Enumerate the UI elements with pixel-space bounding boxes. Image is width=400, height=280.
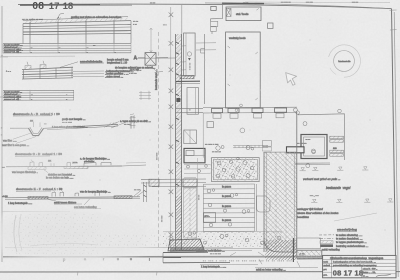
- road cross-hatched vertical band: [262, 112, 297, 262]
- site / garden: [96, 112, 377, 271]
- main hatched wall band: [176, 34, 182, 250]
- rounded island between rows and road: [257, 196, 270, 212]
- scattered small circles: [240, 128, 245, 133]
- survey dashed line: [158, 32, 160, 250]
- left margin ticks: [0, 56, 8, 58]
- legend + title block: [296, 228, 396, 278]
- small square S1: [268, 23, 273, 28]
- top border line: [18, 4, 391, 9]
- D1 top sloped chord: [23, 17, 128, 21]
- D4 bumps and flags: [30, 162, 34, 167]
- detail D1 purlin section: [3, 13, 138, 53]
- small ties around band: [182, 46, 186, 70]
- D5 flags: [52, 192, 64, 196]
- tall rect R_a: [184, 33, 196, 76]
- double line under SE building: [295, 162, 330, 164]
- mouse cursor: [286, 73, 297, 86]
- soft scan stains: [0, 202, 172, 268]
- floor slab line: [176, 80, 200, 82]
- rect R_c: [184, 130, 197, 144]
- D3 leaders to filter labels: [13, 133, 31, 139]
- section marker A with X-box: [129, 53, 168, 75]
- level marks (nabla): [300, 167, 394, 203]
- D5 dark bars: [28, 196, 48, 199]
- D1 table: [3, 42, 131, 44]
- scan specks: [30, 20, 386, 231]
- lower hatched road band (vertical): [184, 188, 197, 238]
- D2 hatch patches with arrows: [25, 66, 31, 70]
- leader through band at y58: [137, 57, 175, 59]
- junction with plan south wall: [176, 107, 203, 109]
- D4 labels below: [44, 170, 48, 173]
- faint driveway stipple lower-left: [12, 214, 98, 254]
- floor plan: [201, 3, 394, 203]
- title block table: [323, 255, 396, 277]
- silo circle: [334, 51, 355, 72]
- detail D2 eaves connection: [3, 59, 156, 101]
- D3 top-right diagonal leaders: [104, 122, 125, 128]
- D3 road surface double line rising right: [44, 124, 119, 128]
- left column details: [0, 13, 172, 268]
- column X-box in R1 corner: [226, 8, 231, 16]
- west wall zigzag: [205, 3, 223, 104]
- leader annotations below site: [196, 248, 318, 268]
- bottom sheet border: [0, 271, 400, 273]
- right border double line: [392, 9, 396, 277]
- room R2 werktuigloods: [226, 32, 261, 108]
- 08 17 18 top stamp: [32, 1, 74, 12]
- white bar doorway to the left: [287, 147, 305, 153]
- small SE building double-wall square: [301, 135, 327, 159]
- small court square left: [207, 122, 213, 128]
- central wall section strip: [137, 5, 230, 263]
- D2 table: [3, 89, 74, 91]
- D1 beam body: [30, 16, 117, 21]
- crossing band y178-188: [141, 178, 206, 180]
- D2 leader: [60, 62, 78, 68]
- road bottom corner + horizontal band: [264, 238, 297, 252]
- D3 gutter V profile: [29, 128, 44, 135]
- dashes ladder near plan: [233, 145, 268, 148]
- rect R_b: [187, 88, 198, 115]
- fence X-mark line: [169, 7, 174, 248]
- paper left edge: [1, 6, 3, 262]
- room R1 stal: [226, 7, 261, 21]
- hatched sill under R_a: [180, 75, 194, 78]
- plant clusters scattered: [169, 146, 281, 245]
- bottom row of block: [323, 271, 332, 273]
- D2 beam body: [22, 67, 73, 69]
- small boxes left of title block: [296, 238, 320, 249]
- D5 right vertical element: [143, 182, 145, 202]
- faint wash over left details: [0, 0, 160, 110]
- leaders from strip to right labels (top): [196, 42, 216, 44]
- garden rows left of bed B1: [184, 164, 211, 177]
- D2 leader lines to labels: [73, 70, 104, 72]
- lawn rows table: [198, 158, 257, 232]
- dark bottom blob of section: [168, 239, 204, 251]
- D3 percent ticks: [33, 122, 35, 127]
- detail D5 road section: [2, 182, 147, 209]
- detail D4 drain section: [2, 152, 146, 179]
- D1 leader flag: [57, 13, 64, 19]
- garden bed B1 (stippled): [212, 158, 260, 182]
- D3 end post connecting to strip: [130, 116, 132, 129]
- boundary double line above bottom: [3, 255, 330, 257]
- SE yard rectangle: [298, 114, 344, 160]
- dark corner block R_d: [184, 148, 205, 162]
- detail D3 gutter section: [2, 112, 151, 147]
- plants in B1: [216, 160, 254, 178]
- north wall (on sheet border): [205, 3, 391, 9]
- D3 ground line left: [10, 127, 29, 129]
- south wall with window openings: [203, 106, 297, 108]
- D1 posts: [29, 22, 31, 44]
- hatched strip pairs right of SE building: [330, 136, 344, 139]
- D4 hatched bars under the line: [28, 167, 46, 170]
- dark anchor ticks on wall band: [176, 42, 179, 186]
- stipple path band bottom: [163, 232, 282, 247]
